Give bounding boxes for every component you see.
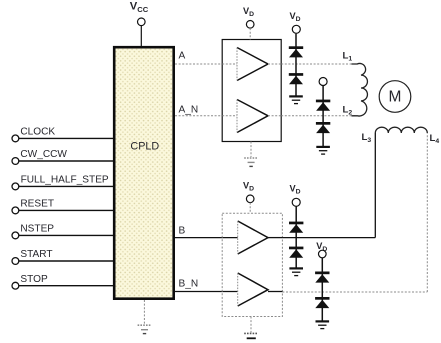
svg-text:A: A [179,51,186,62]
wire STOP [19,285,113,287]
wire net B_N : box to right edge [282,291,427,293]
svg-text:CW_CCW: CW_CCW [20,149,67,160]
wire clamp column A_N vertical [322,86,324,147]
svg-text:CLOCK: CLOCK [20,127,55,138]
terminal circle V_D clamp column A_N [319,78,327,86]
input CLOCK : terminal circle [12,135,19,142]
wire clamp column A vertical [295,34,297,96]
input START : terminal circle [12,258,19,265]
svg-text:VD: VD [290,184,301,196]
svg-text:VD: VD [290,11,301,23]
driver box U2 (top buffer pair) [222,40,281,142]
svg-text:START: START [20,249,52,260]
svg-text:A_N: A_N [179,105,199,116]
ground clamp column A_N [316,147,330,154]
wire V_D stub to bottom box [249,203,251,214]
svg-text:STOP: STOP [20,274,48,285]
wire Vcc to CPLD [140,26,142,46]
ground clamp column A [289,96,303,103]
terminal circle V_D clamp column B [292,198,300,206]
buffer amp B (triangle) [238,221,268,254]
wire clamp column B_N vertical [321,258,323,321]
diode D6 (gnd to B) [289,247,303,258]
svg-text:L2: L2 [343,105,353,117]
wire CLOCK [19,137,113,139]
diode D4 (gnd to A_N) [316,122,330,133]
input STOP : terminal circle [12,282,19,289]
svg-text:CPLD: CPLD [130,141,159,153]
wire net B : vertical up to L3 [374,133,376,238]
terminal circle V_D top box [246,21,254,29]
wire net B_N : CPLD to buffer box [175,291,238,293]
wire net A : CPLD to buffer box [175,63,222,65]
wire net B : CPLD to buffer box [175,237,238,239]
diode D5 (B to VD) [289,222,303,233]
wire B from buffer tip to box edge [268,237,282,239]
driver box U3 (bottom buffer pair, dashed) [222,213,282,316]
input CW_CCW : terminal circle [12,158,19,165]
wire net B : box to corner [282,237,375,239]
wire net A_N : CPLD to buffer box [175,115,222,117]
bottom box ground stub [250,317,252,333]
buffer amp A_N (triangle) [237,100,268,133]
svg-text:L1: L1 [343,51,353,63]
input FULL_HALF_STEP : terminal circle [12,183,19,190]
wire FULL_HALF_STEP [19,185,113,187]
wire clamp column B vertical [295,206,297,267]
terminal circle V_D bottom box [246,195,254,203]
CPLD ground stub [143,300,145,325]
ground clamp column B_N [316,321,330,328]
inductor L1/L2 winding [352,63,368,116]
bottom box ground symbol [244,333,258,338]
svg-text:B_N: B_N [179,279,199,290]
wire net A_N : box to inductor L2 [281,115,355,117]
wire net A : box to inductor L1 [281,63,355,65]
wire A_N inside box [222,115,237,117]
wire A inside box [222,63,237,65]
wire net B_N : vertical up to L4 [426,133,428,292]
wire V_D stub to top box [249,28,251,39]
top box ground stub [250,142,252,158]
svg-text:VD: VD [243,181,254,193]
buffer amp B_N (triangle) [238,273,268,306]
svg-text:VD: VD [243,6,254,18]
svg-text:L3: L3 [362,132,372,144]
svg-text:RESET: RESET [20,199,54,210]
wire A_N from buffer tip to box edge [268,115,281,117]
terminal circle V_D clamp column A [292,25,300,33]
ground clamp column B [289,268,303,275]
diode D1 (A to VD) [289,46,303,57]
wire RESET [19,209,113,211]
buffer amp A (triangle) [237,48,268,81]
svg-text:VCC: VCC [130,1,149,14]
wire NSTEP [19,234,113,236]
wire CW_CCW [19,160,113,162]
diode D3 (A_N to VD) [316,100,330,111]
CPLD U1 body [114,47,174,299]
input RESET : terminal circle [12,207,19,214]
input NSTEP : terminal circle [12,232,19,239]
motor M circle [379,81,411,113]
top box ground symbol [244,158,258,166]
inductor L3/L4 winding [375,127,427,133]
diode D2 (gnd to A) [289,73,303,84]
CPLD ground symbol [138,325,152,333]
diode D8 (gnd to B_N) [315,297,329,308]
svg-text:M: M [389,88,402,105]
wire A from buffer tip to box edge [268,63,281,65]
svg-text:NSTEP: NSTEP [20,224,54,235]
svg-text:FULL_HALF_STEP: FULL_HALF_STEP [21,175,109,186]
diode D7 (B_N to VD) [315,272,329,283]
svg-text:L4: L4 [430,133,440,145]
Vcc terminal circle [138,18,146,26]
terminal circle V_D clamp column B_N [319,250,327,258]
wire START [19,260,113,262]
wire B_N from buffer tip to box edge [268,291,282,293]
svg-text:B: B [179,226,186,237]
